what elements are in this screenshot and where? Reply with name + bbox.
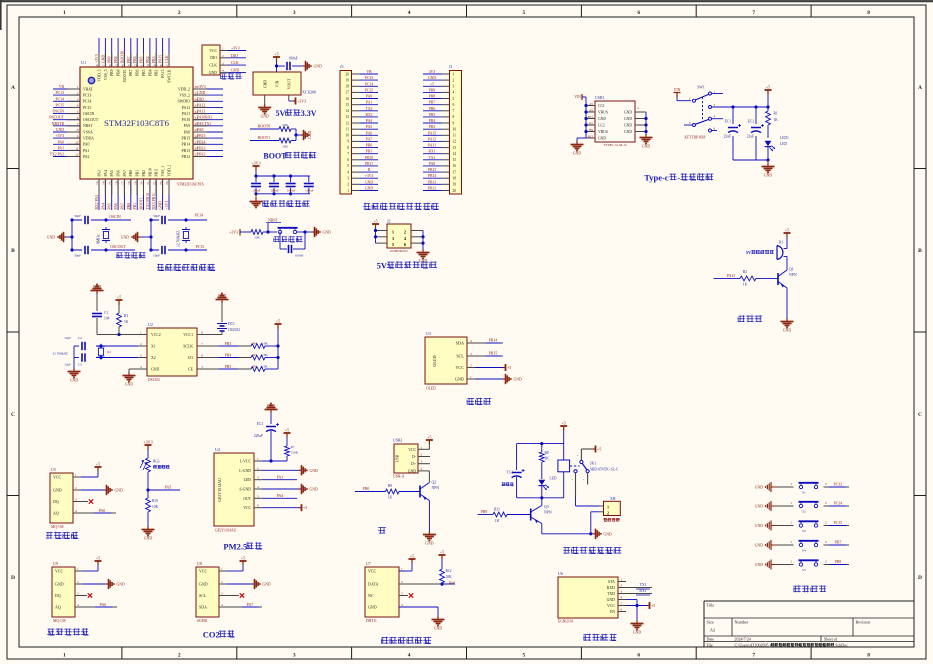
svg-text:4: 4 <box>408 653 411 659</box>
svg-text:PC13: PC13 <box>834 483 843 487</box>
svg-text:VIN: VIN <box>276 80 280 87</box>
U4 L-GND ground <box>262 465 318 475</box>
svg-text:1: 1 <box>790 482 792 486</box>
svg-text:30pF: 30pF <box>74 254 81 258</box>
svg-text:GND: GND <box>365 180 373 184</box>
svg-text:A: A <box>11 85 15 91</box>
ground at XC6206 GND pin <box>258 95 271 119</box>
svg-text:VSS_2: VSS_2 <box>179 94 190 98</box>
svg-text:NC: NC <box>368 593 374 598</box>
svg-text:PA1: PA1 <box>83 149 90 153</box>
svg-text:1: 1 <box>470 375 472 379</box>
svg-text:R2: R2 <box>743 270 747 274</box>
svg-text:100nF: 100nF <box>305 189 314 193</box>
svg-text:PA12: PA12 <box>428 137 436 141</box>
svg-text:PB3: PB3 <box>225 342 232 346</box>
caption qingqi jiance <box>46 532 78 539</box>
svg-text:13: 13 <box>453 146 457 150</box>
svg-text:23: 23 <box>159 181 163 185</box>
svg-text:GND: GND <box>425 542 433 546</box>
ground left of 32k crystal <box>121 220 153 250</box>
svg-text:+5: +5 <box>440 550 444 555</box>
svg-text:RX2 PA3: RX2 PA3 <box>95 195 99 210</box>
svg-text:5V: 5V <box>276 109 286 118</box>
svg-text:RX1: RX1 <box>429 150 436 154</box>
svg-text:2: 2 <box>825 482 827 486</box>
svg-text:EC3: EC3 <box>257 422 264 426</box>
svg-text:PB11: PB11 <box>155 168 159 176</box>
U1 right pin 28 PB15 net PB15 <box>182 134 223 140</box>
caption 5V waijie beiyong dianyuan <box>377 261 437 271</box>
svg-text:8: 8 <box>867 10 870 16</box>
svg-text:GND: GND <box>314 65 322 69</box>
svg-text:1: 1 <box>347 189 349 193</box>
svg-text:JK1: JK1 <box>590 462 596 466</box>
crystal X1 32.768kHz DS1302 <box>52 344 111 360</box>
svg-text:RX2: RX2 <box>366 113 373 117</box>
svg-text:-: - <box>677 173 680 183</box>
svg-text:PB14: PB14 <box>197 140 206 144</box>
relay circuit GND <box>542 524 612 540</box>
svg-text:RX3 PB11: RX3 PB11 <box>152 193 156 210</box>
svg-text:PA5: PA5 <box>108 203 112 210</box>
capacitor C3 22pF <box>64 353 138 367</box>
push button S4 net PB7 <box>755 540 849 553</box>
svg-text:VCC: VCC <box>209 49 217 53</box>
svg-text:3.3V: 3.3V <box>301 109 317 118</box>
U1 left pin 2 PC13 net PC13 <box>53 91 92 97</box>
svg-text:GND: GND <box>642 145 650 149</box>
svg-text:VDD_1: VDD_1 <box>167 164 171 176</box>
U1 left pin 5 OSCIN net OSCIN <box>53 110 95 116</box>
U1 left pin 7 NRST net NRSTR <box>52 122 94 128</box>
J2 right bus to GND <box>417 231 430 264</box>
svg-text:OSCIN: OSCIN <box>53 110 65 114</box>
svg-text:100nF: 100nF <box>287 189 296 193</box>
caption fengmingqi <box>738 315 762 322</box>
IC U8 SGP30 CO2 sensor body <box>196 561 227 623</box>
svg-text:DS1302: DS1302 <box>148 378 160 382</box>
svg-text:GND: GND <box>755 544 763 548</box>
svg-text:USB: USB <box>396 454 400 462</box>
svg-text:A: A <box>918 85 922 91</box>
svg-text:4: 4 <box>714 115 716 119</box>
svg-text:L-GND: L-GND <box>239 469 251 473</box>
svg-text:NRST: NRST <box>268 219 278 223</box>
svg-text:R6: R6 <box>253 365 257 369</box>
U1 top pin 48 VDD_3 net +3V3 <box>95 38 101 82</box>
USB2 VCC to +5 <box>426 435 433 450</box>
svg-text:BOOT1: BOOT1 <box>258 136 270 140</box>
svg-text:PB15: PB15 <box>182 137 191 141</box>
USB2 D+ stub <box>426 463 430 465</box>
svg-text:6: 6 <box>621 608 623 612</box>
svg-text:7: 7 <box>347 152 349 156</box>
svg-text:PB8: PB8 <box>835 560 842 564</box>
svg-text:A3: A3 <box>710 628 715 633</box>
DS1302 pull-up bus +5 <box>275 319 282 370</box>
svg-text:PA11: PA11 <box>182 112 190 116</box>
U1 right pin 25 PB12 net PB12 <box>182 153 223 159</box>
svg-text:VCC: VCC <box>55 569 64 574</box>
U1 right pin 27 PB14 net PB14 <box>182 140 223 146</box>
svg-text:4: 4 <box>77 603 79 607</box>
svg-text:PA10RX1: PA10RX1 <box>197 116 213 120</box>
svg-text:GND: GND <box>755 486 763 490</box>
svg-text:D+: D+ <box>411 462 416 466</box>
svg-text:R11: R11 <box>494 508 500 512</box>
resistor R1 1K <box>765 85 779 139</box>
U1 bottom pin 24 VDD_1 net +3V3 <box>165 164 171 210</box>
svg-text:PA7: PA7 <box>366 137 372 141</box>
svg-text:PC14: PC14 <box>365 82 373 86</box>
svg-text:16: 16 <box>453 164 457 168</box>
svg-text:4: 4 <box>421 467 423 471</box>
svg-text:22pF: 22pF <box>64 363 71 367</box>
svg-text:32.768kHZ: 32.768kHZ <box>177 231 181 247</box>
svg-text:1: 1 <box>77 85 79 89</box>
svg-text:TXD: TXD <box>607 592 615 596</box>
svg-text:19: 19 <box>453 183 457 187</box>
push button S1 net PC13 <box>755 482 849 495</box>
svg-text:6: 6 <box>637 653 640 659</box>
svg-text:5: 5 <box>621 602 623 606</box>
svg-text:GP2Y1014AU: GP2Y1014AU <box>215 529 237 533</box>
svg-text:PB3: PB3 <box>429 125 436 129</box>
svg-text:GND: GND <box>604 532 612 536</box>
svg-text:220uF: 220uF <box>254 434 263 438</box>
svg-text:A5: A5 <box>589 102 593 106</box>
svg-text:C2: C2 <box>78 336 82 340</box>
svg-text:VDD_3: VDD_3 <box>97 69 101 81</box>
U5 VCC to +5 <box>81 462 102 478</box>
svg-text:150R: 150R <box>291 451 299 455</box>
svg-text:PC15: PC15 <box>83 106 92 110</box>
svg-text:BOOT0: BOOT0 <box>123 69 127 81</box>
svg-text:PB14: PB14 <box>428 174 436 178</box>
svg-text:VDDA: VDDA <box>83 137 94 141</box>
svg-text:PA11: PA11 <box>197 110 205 114</box>
svg-text:SRD-05VDC-SL-C: SRD-05VDC-SL-C <box>590 468 619 472</box>
capacitor C4 30pF OSCIN <box>70 214 131 225</box>
svg-text:100nF: 100nF <box>288 57 297 61</box>
svg-text:PA6: PA6 <box>366 131 372 135</box>
svg-text:PA0: PA0 <box>83 143 90 147</box>
U1 right pin 33 PA12 net PA12 <box>182 103 223 109</box>
U8 VCC to +5 <box>227 556 247 572</box>
svg-text:2: 2 <box>607 511 609 516</box>
resistor R4 10K pull-up PB3 <box>206 342 278 349</box>
svg-text:4: 4 <box>621 596 623 600</box>
caption fuwei dianlu <box>274 236 303 242</box>
U9 DQ no-connect X <box>83 593 92 597</box>
svg-text:6: 6 <box>453 103 455 107</box>
U6 TXD net RX1 <box>626 589 652 595</box>
svg-text:1: 1 <box>621 578 623 582</box>
svg-text:1: 1 <box>421 445 423 449</box>
svg-text:1: 1 <box>607 505 609 510</box>
svg-text:40: 40 <box>146 64 150 68</box>
svg-text:PC14: PC14 <box>83 100 92 104</box>
svg-text:GND: GND <box>624 130 632 134</box>
svg-text:4: 4 <box>221 603 223 607</box>
svg-text:17: 17 <box>121 181 125 185</box>
svg-text:17: 17 <box>453 170 457 174</box>
svg-text:DATA: DATA <box>368 582 378 587</box>
svg-text:CO2: CO2 <box>203 630 220 640</box>
svg-text:STM32F103C8T6: STM32F103C8T6 <box>104 118 170 128</box>
svg-text:U7: U7 <box>366 561 371 566</box>
IC U5 MQ-138 hydrogen sensor body <box>50 467 81 529</box>
svg-text:4: 4 <box>347 170 349 174</box>
U1 left pin 1 VBAT net VB <box>53 85 94 91</box>
svg-text:VSS_3: VSS_3 <box>104 69 108 80</box>
svg-text:GND: GND <box>624 117 632 121</box>
U9 VCC to +5 <box>83 556 102 572</box>
svg-text:PA4: PA4 <box>366 119 372 123</box>
caption xianshiping <box>467 398 492 405</box>
svg-text:+: + <box>571 478 573 482</box>
resistor R5 10K pull-up PB4 <box>206 353 278 360</box>
svg-text:B: B <box>918 248 922 254</box>
caption Type-c kou dianyuan dianlu <box>644 173 713 183</box>
U1 bottom pin 15 PA5 net PA5 <box>108 170 114 210</box>
svg-text:6: 6 <box>201 354 203 358</box>
svg-text:PC13: PC13 <box>365 76 373 80</box>
caption jidianqi kongzhi shuchu <box>563 547 621 554</box>
J2 left bus to +5 <box>372 219 379 244</box>
svg-text:PA8: PA8 <box>429 162 435 166</box>
USB1 left bus VIN and GND <box>571 94 588 156</box>
svg-text:46: 46 <box>108 64 112 68</box>
svg-text:4: 4 <box>401 603 403 607</box>
svg-text:BOOT: BOOT <box>263 152 287 161</box>
push button S5 net PB8 <box>755 560 849 573</box>
svg-text:+3V3: +3V3 <box>55 134 64 138</box>
caption deng (lamp) <box>378 527 386 533</box>
U1 bottom pin 23 VSS_1 net GND <box>159 166 165 210</box>
svg-text:+5: +5 <box>276 319 280 324</box>
svg-text:48: 48 <box>95 64 99 68</box>
svg-text:2: 2 <box>825 540 827 544</box>
U1 top pin 40 PB4 net PB4 <box>146 38 152 76</box>
OLED VCC to +5 <box>475 364 511 371</box>
U5 GND ground <box>81 485 123 495</box>
svg-text:B: B <box>11 248 15 254</box>
svg-text:PA0: PA0 <box>99 509 106 513</box>
capacitor C2 22pF <box>64 336 138 351</box>
svg-text:19: 19 <box>133 181 137 185</box>
svg-text:5: 5 <box>257 494 259 498</box>
svg-text:R9: R9 <box>388 484 392 488</box>
svg-text:GND: GND <box>755 563 763 567</box>
svg-text:2: 2 <box>453 78 455 82</box>
svg-text:GND: GND <box>428 76 436 80</box>
U7 NC no-connect X <box>399 593 413 597</box>
svg-text:4: 4 <box>470 339 472 343</box>
svg-text:2: 2 <box>140 342 142 346</box>
svg-text:PB1: PB1 <box>366 150 373 154</box>
relay JK1 SRD-05VDC-SL-C contacts <box>571 446 619 485</box>
reset button to GND <box>297 227 331 237</box>
diode LED1 <box>765 136 789 162</box>
svg-text:VSSA: VSSA <box>83 130 93 134</box>
svg-text:DHT11: DHT11 <box>366 619 377 623</box>
U1 right pin 29 PA8 net PA8 <box>184 128 223 134</box>
U7 VCC to +5 <box>399 554 416 572</box>
svg-text:100nF: 100nF <box>252 189 261 193</box>
svg-text:U6: U6 <box>558 571 563 576</box>
svg-text:10K: 10K <box>254 236 260 240</box>
svg-text:LED: LED <box>244 478 252 482</box>
svg-text:PB6: PB6 <box>136 69 140 76</box>
XC6206 VOUT to +3V3 <box>289 95 306 105</box>
svg-text:Size: Size <box>707 620 714 625</box>
svg-text:2: 2 <box>825 501 827 505</box>
crystal X2 32.768kHz <box>177 218 191 251</box>
caption BOOT shezhi dianlu <box>263 152 316 161</box>
svg-text:STA: STA <box>608 580 615 584</box>
svg-text:PB9: PB9 <box>110 69 114 76</box>
ground left of crystals <box>47 220 74 250</box>
svg-text:5V: 5V <box>377 261 388 271</box>
svg-text:4: 4 <box>222 69 224 73</box>
svg-text:J1: J1 <box>449 64 453 69</box>
svg-text:PA15: PA15 <box>727 274 735 278</box>
svg-text:Revision: Revision <box>856 620 872 625</box>
svg-text:VCC1: VCC1 <box>183 333 193 337</box>
svg-text:PA15: PA15 <box>159 55 163 63</box>
svg-text:NPN: NPN <box>544 511 552 515</box>
svg-text:47: 47 <box>102 64 106 68</box>
svg-text:11: 11 <box>453 134 457 138</box>
svg-text:Date: Date <box>707 637 715 642</box>
svg-text:STM32F103C8T6: STM32F103C8T6 <box>177 183 204 187</box>
svg-text:GND: GND <box>598 117 606 121</box>
svg-text:PA5: PA5 <box>366 125 372 129</box>
svg-text:5: 5 <box>689 121 691 125</box>
svg-text:GND: GND <box>261 115 269 119</box>
U1 top pin 43 PB7 net PB7 <box>127 38 133 76</box>
svg-text:CC1: CC1 <box>598 104 605 108</box>
svg-text:16: 16 <box>345 97 349 101</box>
svg-text:OSCOUT: OSCOUT <box>49 116 65 120</box>
Q2 emitter to GND <box>423 501 436 546</box>
svg-text:PA5: PA5 <box>110 170 114 177</box>
push button S3 net PC15 <box>755 521 849 534</box>
svg-text:3: 3 <box>621 590 623 594</box>
svg-text:GND: GND <box>368 605 377 610</box>
svg-text:PA10: PA10 <box>182 118 190 122</box>
svg-text:2: 2 <box>401 580 403 584</box>
svg-text:2024/7/24: 2024/7/24 <box>735 637 751 642</box>
svg-text:1: 1 <box>714 90 716 94</box>
svg-text:PB13: PB13 <box>197 146 206 150</box>
svg-text:2: 2 <box>825 560 827 564</box>
svg-text:CLK: CLK <box>231 61 239 65</box>
svg-text:2: 2 <box>221 580 223 584</box>
svg-text:OSCIN: OSCIN <box>83 112 95 116</box>
svg-text:PA11: PA11 <box>428 144 436 148</box>
svg-text:X2: X2 <box>151 356 156 360</box>
terminal XH socket <box>599 497 620 522</box>
svg-text:38: 38 <box>159 64 163 68</box>
svg-text:RG1: RG1 <box>153 460 160 464</box>
svg-text:B5: B5 <box>589 121 593 125</box>
svg-text:I/O: I/O <box>188 356 193 360</box>
svg-text:EC802101: EC802101 <box>558 620 574 624</box>
svg-text:7: 7 <box>77 122 79 126</box>
resistor R2 1K on PA15 <box>714 270 779 287</box>
OLED SDA net PB14 <box>475 339 503 344</box>
svg-text:2: 2 <box>825 521 827 525</box>
USB2 GND to Q2 collector <box>426 471 429 483</box>
svg-text:45: 45 <box>114 64 118 68</box>
svg-text:3: 3 <box>222 61 224 65</box>
svg-text:DC1: DC1 <box>228 322 235 326</box>
svg-text:+: + <box>577 454 579 458</box>
svg-text:GND: GND <box>263 583 271 587</box>
svg-text:GND: GND <box>323 231 331 235</box>
svg-text:4: 4 <box>75 509 77 513</box>
svg-text:3: 3 <box>221 592 223 596</box>
svg-text:+3V3: +3V3 <box>229 231 238 235</box>
svg-text:1: 1 <box>790 521 792 525</box>
svg-text:U8: U8 <box>197 561 202 566</box>
svg-text:PB8: PB8 <box>116 69 120 76</box>
svg-text:39: 39 <box>152 64 156 68</box>
svg-text:CLK: CLK <box>209 64 217 68</box>
svg-text:12: 12 <box>345 121 349 125</box>
svg-text:TYPEC-31-M-12: TYPEC-31-M-12 <box>603 143 627 147</box>
svg-text:USB-A: USB-A <box>393 475 405 479</box>
svg-text:16: 16 <box>114 181 118 185</box>
svg-text:S4: S4 <box>802 549 806 553</box>
svg-text:VCC: VCC <box>607 604 615 608</box>
svg-text:EC2: EC2 <box>748 120 755 124</box>
IC U4 GP2Y1014AU PM2.5 sensor body <box>214 447 262 533</box>
svg-text:22uF: 22uF <box>747 135 754 139</box>
U1 top pin 45 PB8 net PB8 <box>114 38 120 76</box>
svg-text:C:\Users\AT1002695: C:\Users\AT1002695 <box>735 642 769 647</box>
caption 5V jiang ya 3.3V <box>276 109 317 118</box>
svg-text:U2: U2 <box>148 322 153 327</box>
svg-text:30pF: 30pF <box>74 214 81 218</box>
svg-text:R10: R10 <box>152 499 158 503</box>
svg-text:PB5: PB5 <box>225 365 232 369</box>
svg-text:+3V3: +3V3 <box>197 85 206 89</box>
svg-text:3: 3 <box>347 177 349 181</box>
svg-text:VIN: VIN <box>574 95 581 99</box>
svg-text:GND: GND <box>408 469 416 473</box>
caption wenshidu chuanganqi <box>381 637 431 644</box>
svg-text:PC15: PC15 <box>365 88 373 92</box>
svg-text:PinHDR2X3: PinHDR2X3 <box>390 249 408 253</box>
svg-text:8MHz: 8MHz <box>97 234 101 244</box>
svg-text:1: 1 <box>77 567 79 571</box>
relay JK1 coil <box>558 444 580 498</box>
connector USB1 Type-C body <box>586 96 646 147</box>
svg-text:VBUS: VBUS <box>598 130 608 134</box>
svg-text:44: 44 <box>121 64 125 68</box>
U4 OUT net PA4 <box>262 494 297 498</box>
svg-text:+3V3: +3V3 <box>231 47 240 51</box>
svg-text:GND: GND <box>514 378 522 382</box>
svg-text:PA6: PA6 <box>114 203 118 210</box>
U5 AQ net PA0 <box>81 509 116 513</box>
svg-text:R1: R1 <box>774 112 778 116</box>
svg-text:VB: VB <box>59 85 65 89</box>
